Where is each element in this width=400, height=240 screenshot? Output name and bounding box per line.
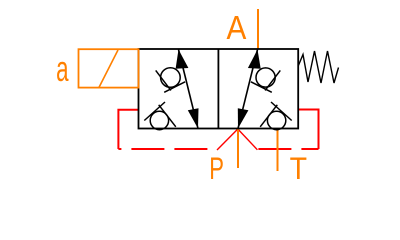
pilot drain dashed line right part (red) — [257, 148, 318, 150]
right position: upper ball poppet — [251, 68, 280, 92]
svg-text:P: P — [209, 150, 224, 186]
left position: lower ball poppet — [144, 102, 176, 130]
label A — [227, 8, 247, 46]
svg-text:T: T — [290, 151, 307, 186]
label P — [209, 150, 224, 186]
valve body: two position boxes — [139, 49, 299, 129]
pilot drain dashed line left part (red) — [118, 148, 217, 150]
port P line (orange) — [237, 129, 239, 169]
port A line (orange) — [257, 9, 259, 49]
pilot line left (red) — [118, 110, 138, 149]
left position: upper ball poppet — [156, 68, 185, 93]
svg-text:a: a — [56, 50, 69, 90]
label a — [56, 50, 69, 90]
position divider — [217, 49, 219, 129]
pilot branch left diagonal (red) — [217, 129, 238, 150]
svg-text:A: A — [227, 8, 247, 46]
solenoid actuator box a (orange) — [79, 49, 139, 87]
solenoid winding diagonal — [99, 50, 118, 87]
return spring — [298, 51, 338, 83]
label T — [290, 151, 307, 186]
right position: flow arrow — [238, 50, 261, 129]
port T line (orange) — [277, 129, 279, 172]
pilot line right (red) — [298, 110, 318, 150]
left position: flow arrow — [176, 50, 199, 129]
right position: lower ball poppet — [260, 102, 292, 130]
pilot branch right diagonal (red) — [238, 129, 258, 150]
